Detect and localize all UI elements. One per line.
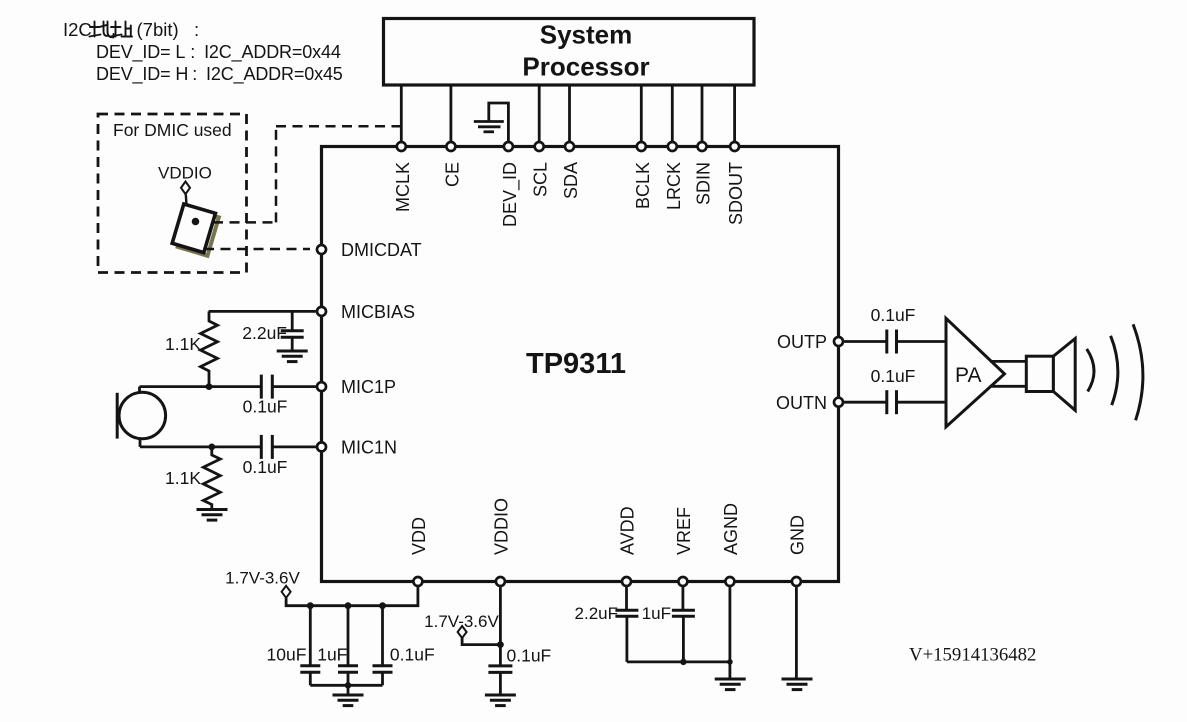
svg-text:0.1uF: 0.1uF: [243, 397, 288, 417]
supply diamond VDD: [282, 586, 291, 598]
svg-text:DEV_ID= H:I2C_ADDR=0x45: DEV_ID= H:I2C_ADDR=0x45: [96, 64, 343, 85]
svg-text:0.1uF: 0.1uF: [390, 645, 435, 665]
svg-text:SDA: SDA: [561, 162, 581, 199]
wire MIC1P: [273, 385, 316, 388]
dashed wire dmic to mclk: horizontal from dmic: [213, 221, 276, 224]
capacitor C3 0.1uF plates: [260, 435, 263, 459]
wire OUTP: [844, 340, 886, 343]
svg-text:GND: GND: [787, 515, 807, 555]
svg-text:SDIN: SDIN: [694, 162, 714, 205]
svg-text:OUTN: OUTN: [776, 393, 827, 413]
pin BCLK: [637, 142, 646, 151]
System Processor box: [384, 19, 755, 86]
capacitor C2 0.1uF plates: [260, 375, 263, 399]
pin VDDIO: [496, 577, 505, 586]
chinese char di (ground): [90, 22, 114, 38]
microphone MK1 plate: [116, 393, 119, 439]
DMIC microphone package: [172, 204, 220, 256]
pin VREF: [678, 577, 687, 586]
svg-text:(7bit): (7bit): [137, 19, 179, 40]
chinese char zhi (site): [111, 22, 133, 37]
svg-text:OUTP: OUTP: [777, 332, 827, 352]
wire VDDIO down: [499, 587, 502, 665]
pin MIC1N: [317, 442, 326, 451]
capacitor C4 0.1uF plates: [885, 330, 888, 354]
svg-text:SCL: SCL: [531, 162, 551, 197]
svg-text:VDDIO: VDDIO: [491, 498, 511, 555]
svg-text:Processor: Processor: [522, 52, 649, 82]
wire SDOUT to processor: [733, 85, 736, 142]
svg-text:0.1uF: 0.1uF: [871, 305, 916, 325]
svg-text:System: System: [540, 20, 633, 50]
svg-text:1uF: 1uF: [317, 645, 347, 665]
wire SDA to processor: [568, 85, 571, 142]
svg-text:MCLK: MCLK: [393, 162, 413, 212]
svg-text:PA: PA: [955, 364, 981, 387]
capacitor C6 10uF: [300, 606, 320, 686]
pin GND: [792, 577, 801, 586]
capacitor C10 2.2uF: [615, 610, 638, 662]
DMIC port dot: [192, 218, 200, 226]
pin AVDD: [622, 577, 631, 586]
capacitor C1 plates: [281, 329, 304, 332]
pin MCLK: [397, 142, 406, 151]
svg-text:0.1uF: 0.1uF: [871, 366, 916, 386]
microphone MK1 body: [119, 392, 166, 439]
svg-text:AGND: AGND: [721, 503, 741, 555]
svg-text:2.2uF: 2.2uF: [575, 604, 618, 623]
svg-text:DEV_ID= L:I2C_ADDR=0x44: DEV_ID= L:I2C_ADDR=0x44: [96, 42, 341, 63]
capacitor C7 1uF: [338, 606, 358, 686]
svg-text:BCLK: BCLK: [633, 162, 653, 209]
capacitor C5 0.1uF plates: [885, 390, 888, 414]
ground at R2: [197, 510, 228, 521]
resistor R2 1.1K: [203, 447, 220, 509]
ground at C1: [277, 351, 308, 362]
pin VDD: [413, 577, 422, 586]
svg-text:1.1K: 1.1K: [165, 468, 201, 488]
wire PA to speaker top: [990, 360, 1026, 363]
capacitor C1 bottom lead: [291, 338, 294, 351]
wire OUTN: [844, 401, 886, 404]
wire MCLK to processor: [400, 85, 403, 142]
svg-text:MIC1N: MIC1N: [341, 438, 397, 458]
wire MIC1P drop to mic: [138, 387, 141, 394]
chip U1 TP9311 body: [322, 147, 839, 582]
svg-text:MIC1P: MIC1P: [341, 377, 396, 397]
capacitor C8 0.1uF: [373, 606, 393, 686]
svg-text:VDD: VDD: [409, 517, 429, 555]
wire SDIN to processor: [701, 85, 704, 142]
pin MICBIAS: [317, 307, 326, 316]
svg-text:LRCK: LRCK: [664, 162, 684, 210]
svg-text:SDOUT: SDOUT: [726, 162, 746, 225]
pin SDOUT: [730, 142, 739, 151]
wire MIC1N rise to mic: [139, 438, 142, 447]
pin OUTN: [834, 398, 843, 407]
svg-text:1.7V-3.6V: 1.7V-3.6V: [225, 569, 300, 588]
sound wave arc 1: [1087, 349, 1094, 392]
wire GND down: [795, 587, 798, 678]
capacitor C11 1uF: [672, 610, 695, 662]
svg-text:0.1uF: 0.1uF: [243, 457, 288, 477]
ground AGND: [715, 679, 746, 690]
junction dot c6: [307, 602, 314, 609]
wire AGND down: [729, 587, 732, 678]
bus under VDD caps: [310, 684, 382, 687]
wire LRCK to processor: [671, 85, 674, 142]
wire MICBIAS: [209, 310, 316, 313]
svg-text:AVDD: AVDD: [618, 506, 638, 555]
dashed wire dmic to DMICDAT: [204, 248, 310, 251]
dashed wire vertical: [275, 126, 278, 222]
svg-text:V+15914136482: V+15914136482: [909, 645, 1036, 666]
svg-text:VREF: VREF: [674, 507, 694, 555]
speaker LS1 driver box: [1026, 356, 1053, 391]
dashed wire horizontal to MCLK: [276, 125, 400, 128]
junction dot VREF bus: [680, 659, 686, 665]
bus AVDD/VREF to AGND: [627, 661, 730, 664]
junction dot c7: [345, 602, 352, 609]
pin DEV_ID: [504, 142, 513, 151]
svg-text:0.1uF: 0.1uF: [507, 646, 552, 666]
wire to VDDIO diamond: [462, 638, 500, 645]
ground VDDIO: [485, 695, 516, 706]
junction dot c8: [379, 602, 386, 609]
pin SDA: [565, 142, 574, 151]
wire VDD down-left: [286, 587, 418, 606]
pin AGND: [725, 577, 734, 586]
junction dot bus: [345, 682, 351, 688]
DMIC dashed box: [98, 114, 247, 273]
svg-text:1uF: 1uF: [642, 604, 671, 623]
junction dot R1/MIC1P: [206, 383, 213, 390]
wire MIC1N: [273, 445, 316, 448]
pin LRCK: [668, 142, 677, 151]
svg-text:VDDIO: VDDIO: [158, 164, 212, 183]
svg-text:I2C: I2C: [63, 19, 92, 40]
wire diamond to dmic: [185, 195, 188, 207]
amplifier PA U2: [946, 318, 1005, 427]
pin SCL: [535, 142, 544, 151]
VDDIO diamond (dmic): [181, 182, 190, 195]
speaker LS1 horn: [1053, 339, 1075, 411]
wire PA to speaker bottom: [990, 385, 1026, 388]
wire AVDD down: [625, 587, 628, 610]
svg-text:TP9311: TP9311: [526, 348, 626, 380]
svg-text:MICBIAS: MICBIAS: [341, 302, 415, 322]
pin CE: [446, 142, 455, 151]
wire CE to processor: [449, 85, 452, 142]
svg-text:1.1K: 1.1K: [165, 334, 201, 354]
ground VDD bus: [347, 685, 350, 694]
sound wave arc 3: [1133, 324, 1143, 420]
wire SCL to processor: [538, 85, 541, 142]
pin DMICDAT: [317, 245, 326, 254]
DEV_ID ground hook wire: [489, 103, 509, 142]
svg-text:10uF: 10uF: [267, 645, 307, 665]
svg-text:For DMIC used: For DMIC used: [113, 120, 232, 140]
ground at DEV_ID: [474, 122, 504, 132]
supply diamond VDDIO: [458, 626, 467, 638]
resistor R1 1.1K: [201, 311, 218, 386]
wire BCLK to processor: [640, 85, 643, 142]
svg-text:CE: CE: [442, 162, 462, 187]
svg-text:1.7V-3.6V: 1.7V-3.6V: [424, 612, 499, 631]
sound wave arc 2: [1111, 336, 1118, 405]
wire VREF down: [682, 587, 685, 610]
capacitor C9 0.1uF: [488, 666, 512, 695]
ground GND: [782, 679, 813, 690]
capacitor C1 2.2uF lead: [291, 311, 294, 330]
svg-text::: :: [194, 19, 199, 40]
pin OUTP: [834, 337, 843, 346]
svg-text:2.2uF: 2.2uF: [242, 323, 287, 343]
junction dot VDDIO: [497, 641, 504, 648]
pin MIC1P: [317, 382, 326, 391]
svg-text:DMICDAT: DMICDAT: [341, 240, 422, 260]
svg-text:DEV_ID: DEV_ID: [500, 162, 521, 227]
pin SDIN: [698, 142, 707, 151]
junction dot R2/MIC1N: [208, 444, 215, 451]
junction dot AGND bus: [727, 659, 733, 665]
